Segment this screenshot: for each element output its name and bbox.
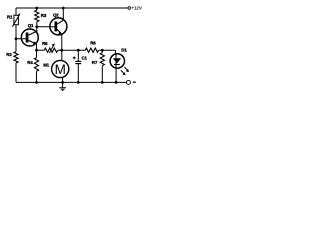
- svg-text:R6: R6: [90, 41, 96, 46]
- svg-text:Q2: Q2: [53, 13, 59, 18]
- svg-text:R2: R2: [6, 52, 12, 57]
- svg-text:C1: C1: [82, 56, 88, 61]
- svg-text:Q1: Q1: [28, 23, 34, 28]
- svg-text:R1: R1: [7, 14, 13, 19]
- svg-text:R3: R3: [41, 13, 47, 18]
- svg-text:M: M: [55, 62, 66, 77]
- svg-text:M1: M1: [43, 62, 50, 67]
- svg-text:D1: D1: [121, 47, 127, 52]
- svg-text:R4: R4: [27, 60, 33, 65]
- svg-text:R5: R5: [42, 41, 48, 46]
- svg-text:R7: R7: [92, 60, 98, 65]
- svg-text:+12V: +12V: [131, 6, 142, 11]
